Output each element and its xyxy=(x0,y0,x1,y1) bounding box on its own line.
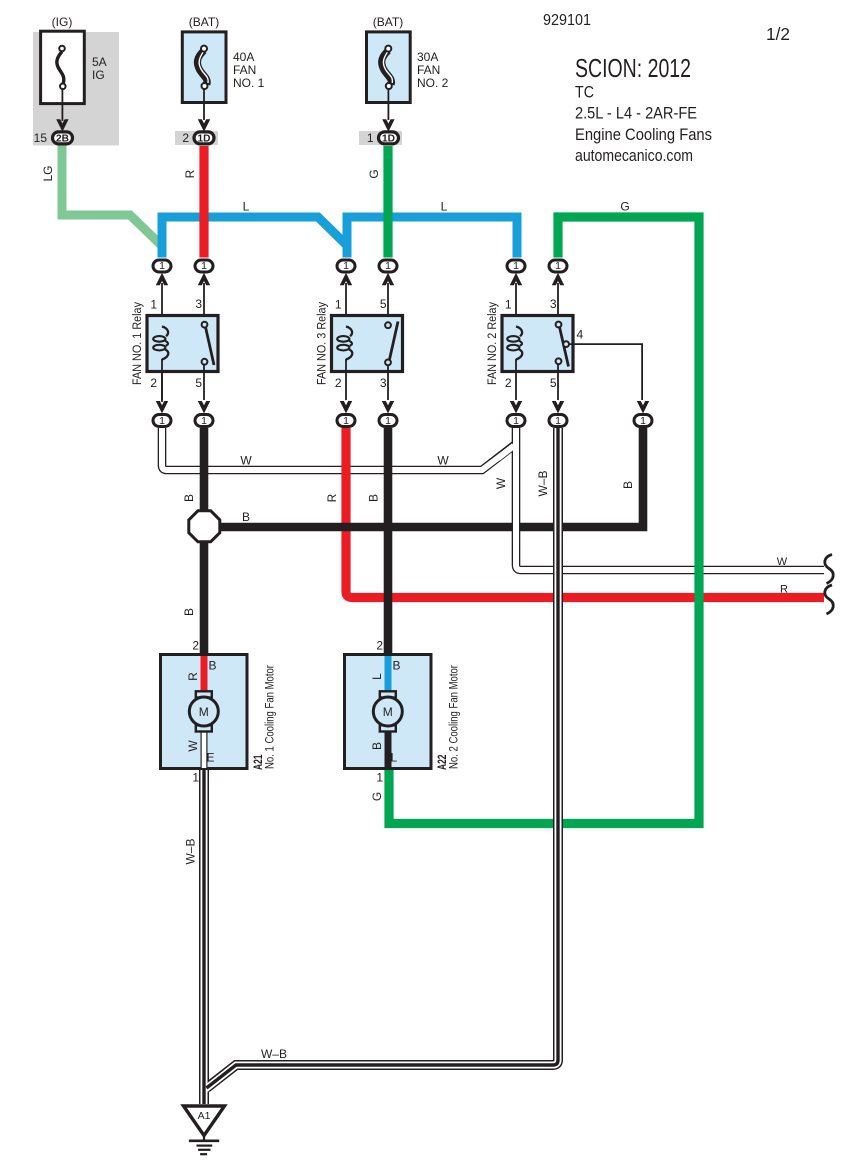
junction octagon node xyxy=(189,511,220,542)
oval 1 below relay1 pin2 xyxy=(153,372,171,427)
wire label G top right xyxy=(620,200,629,214)
svg-text:2.5L - L4 - 2AR-FE: 2.5L - L4 - 2AR-FE xyxy=(575,104,697,123)
oval 1 relay2 pin3 xyxy=(549,260,567,323)
svg-text:TC: TC xyxy=(575,83,594,102)
svg-text:B: B xyxy=(621,481,635,489)
connector oval 1D fuse2 xyxy=(367,131,399,145)
svg-text:5: 5 xyxy=(195,376,202,390)
svg-text:3: 3 xyxy=(380,376,387,390)
svg-text:B: B xyxy=(393,659,401,673)
svg-text:FAN: FAN xyxy=(233,63,256,77)
svg-text:B: B xyxy=(209,659,217,673)
wire W-B relay2 pin5 down, left along bottom, to ground (white-black) xyxy=(204,428,558,1104)
wire R relay3 pin2 down then right to edge (red) xyxy=(346,428,824,598)
wire G fuse2 to oval (green) xyxy=(383,146,392,258)
svg-text:929101: 929101 xyxy=(543,12,591,29)
wire W from relay1 pin2 down-right to relay2 pin2 branch (white wire, behind) xyxy=(162,428,515,470)
svg-text:R: R xyxy=(183,169,197,178)
svg-text:1: 1 xyxy=(343,260,349,272)
oval 1 below relay2 pin4 xyxy=(634,401,652,427)
svg-text:5: 5 xyxy=(380,297,387,311)
label B left of black vertical pin4 xyxy=(621,481,635,489)
svg-text:automecanico.com: automecanico.com xyxy=(575,146,693,165)
svg-text:W–B: W–B xyxy=(536,470,550,496)
svg-text:W: W xyxy=(777,556,788,568)
pin 4 wire to oval xyxy=(569,343,644,345)
oval 1 below relay1 pin5 xyxy=(195,401,213,427)
fuse F1 5A IG box xyxy=(41,31,85,121)
coil xyxy=(346,327,352,337)
svg-text:(BAT): (BAT) xyxy=(373,15,403,29)
svg-text:G: G xyxy=(620,200,629,214)
label W-B left of wb vertical relay2 xyxy=(536,470,550,496)
gray tag connector 1D fuse 30A xyxy=(359,131,402,145)
arrow into 1D xyxy=(198,119,210,132)
svg-text:1: 1 xyxy=(335,298,342,312)
svg-text:2: 2 xyxy=(505,376,512,390)
wire label G xyxy=(367,169,381,178)
svg-text:3: 3 xyxy=(550,297,557,311)
svg-text:1: 1 xyxy=(343,415,349,427)
wire G loop: relay2 pin3 up, right, down right side, bottom to motor2 pin1 (green) xyxy=(389,217,699,824)
svg-text:W: W xyxy=(186,740,200,752)
label B on bus xyxy=(242,510,250,524)
svg-text:W–B: W–B xyxy=(261,1047,287,1061)
connector oval 1D fuse1 xyxy=(182,131,214,145)
wire B relay1 pin5 to octagon junction to motor1 (black) xyxy=(200,428,209,655)
svg-text:R: R xyxy=(186,672,200,681)
svg-text:FAN: FAN xyxy=(417,63,440,77)
svg-text:1D: 1D xyxy=(382,134,395,145)
svg-text:2: 2 xyxy=(335,376,342,390)
svg-text:W: W xyxy=(437,454,449,468)
svg-text:R: R xyxy=(325,493,339,502)
svg-text:G: G xyxy=(367,169,381,178)
relay FAN NO. 1 Relay xyxy=(132,297,218,400)
switch with pin4 tap xyxy=(560,327,569,367)
label W right end xyxy=(777,556,788,568)
label 30A FAN NO. 2 xyxy=(417,50,449,90)
svg-text:B: B xyxy=(367,494,381,502)
svg-text:B: B xyxy=(370,742,384,750)
label W left of white vertical relay2 xyxy=(494,477,508,489)
label R left of red vertical xyxy=(325,493,339,502)
internal B wire xyxy=(385,730,392,768)
motor circle xyxy=(373,697,402,726)
coil xyxy=(162,327,168,337)
svg-text:L: L xyxy=(370,673,384,680)
label W on horizontal xyxy=(240,454,252,468)
svg-text:IG: IG xyxy=(92,68,105,82)
svg-text:A22: A22 xyxy=(437,755,449,771)
continuation squiggle W xyxy=(825,555,833,584)
motor A21 No.1 Cooling Fan Motor xyxy=(161,639,277,785)
svg-text:B: B xyxy=(182,608,196,616)
oval 1 relay3 pin5 xyxy=(379,260,397,323)
svg-text:1: 1 xyxy=(201,260,207,272)
oval 1 relay1 pin3 xyxy=(195,260,213,323)
wire label L second xyxy=(441,200,448,214)
svg-text:30A: 30A xyxy=(417,50,438,64)
arrow into 1D xyxy=(382,119,394,132)
svg-text:1: 1 xyxy=(192,771,199,785)
wire label R xyxy=(183,169,197,178)
svg-text:5: 5 xyxy=(550,376,557,390)
fuse F2 40A FAN NO.1 box xyxy=(182,32,226,120)
svg-text:NO. 1: NO. 1 xyxy=(233,76,265,90)
wire W relay2 pin2 down then right to edge (white) xyxy=(498,428,824,570)
svg-text:5A: 5A xyxy=(92,55,107,69)
internal W wire xyxy=(201,730,208,768)
wire LG from IG fuse xyxy=(62,144,162,246)
svg-text:B: B xyxy=(182,494,196,502)
svg-text:SCION: 2012: SCION: 2012 xyxy=(575,53,691,83)
svg-text:M: M xyxy=(199,705,209,719)
internal R wire xyxy=(201,656,208,692)
motor terminals xyxy=(380,691,396,697)
oval 1 below relay2 pin2 xyxy=(507,401,525,427)
svg-text:1: 1 xyxy=(367,131,374,145)
svg-text:1: 1 xyxy=(201,415,207,427)
svg-text:W: W xyxy=(240,454,252,468)
svg-text:W–B: W–B xyxy=(184,838,198,864)
svg-text:G: G xyxy=(370,792,384,801)
svg-text:1/2: 1/2 xyxy=(766,24,790,44)
svg-text:40A: 40A xyxy=(233,50,254,64)
label (BAT) xyxy=(189,15,219,29)
svg-text:1: 1 xyxy=(376,771,383,785)
wire B bus octagon to relay2 pin4 oval (black) xyxy=(210,428,643,527)
svg-text:2: 2 xyxy=(182,131,189,145)
internal L wire xyxy=(385,656,392,692)
svg-text:(BAT): (BAT) xyxy=(189,15,219,29)
wire label LG xyxy=(41,165,55,181)
svg-text:W: W xyxy=(494,477,508,489)
label B under octagon xyxy=(182,608,196,616)
relay FAN NO. 3 Relay xyxy=(317,297,403,400)
label W-B left vertical xyxy=(184,838,198,864)
switch xyxy=(206,327,215,365)
svg-text:No. 1 Cooling Fan Motor: No. 1 Cooling Fan Motor xyxy=(265,665,277,769)
oval 1 relay3 pin1 xyxy=(337,260,355,328)
svg-text:1: 1 xyxy=(385,260,391,272)
motor circle xyxy=(189,697,218,726)
label W on horizontal 2 xyxy=(437,454,449,468)
switch (arm from bottom contact up-right) xyxy=(390,322,399,360)
label B left of black vertical relay3 xyxy=(367,494,381,502)
svg-text:3: 3 xyxy=(195,297,202,311)
oval 1 below relay3 pin3 xyxy=(379,401,397,427)
svg-text:LG: LG xyxy=(41,165,55,181)
label (IG) xyxy=(52,15,73,29)
svg-text:NO. 2: NO. 2 xyxy=(417,76,449,90)
wire B relay3 pin3 to motor2 (black) xyxy=(384,428,393,655)
svg-text:M: M xyxy=(383,705,393,719)
svg-text:L: L xyxy=(441,200,448,214)
ground A1 xyxy=(184,1106,225,1154)
oval 1 relay1 pin1 xyxy=(153,260,171,328)
svg-text:1: 1 xyxy=(150,298,157,312)
wire label L first xyxy=(243,200,250,214)
svg-text:15: 15 xyxy=(34,131,48,145)
svg-text:1: 1 xyxy=(555,415,561,427)
label (BAT) xyxy=(373,15,403,29)
svg-text:FAN NO. 3 Relay: FAN NO. 3 Relay xyxy=(317,302,329,385)
title block xyxy=(543,12,790,165)
svg-text:1: 1 xyxy=(513,260,519,272)
label B left of black vertical xyxy=(182,494,196,502)
svg-text:1: 1 xyxy=(513,415,519,427)
svg-text:L: L xyxy=(243,200,250,214)
label W-B bottom horizontal xyxy=(261,1047,287,1061)
svg-text:4: 4 xyxy=(577,328,584,342)
continuation squiggle R xyxy=(825,585,833,614)
svg-text:E: E xyxy=(207,751,215,765)
gray backdrop IG fuse area xyxy=(33,32,119,146)
svg-text:A21: A21 xyxy=(253,754,265,770)
oval 1 below relay2 pin5 xyxy=(549,401,567,427)
svg-text:FAN NO. 1 Relay: FAN NO. 1 Relay xyxy=(132,302,144,385)
svg-text:2: 2 xyxy=(376,639,383,653)
svg-text:(IG): (IG) xyxy=(52,15,73,29)
svg-text:2: 2 xyxy=(150,376,157,390)
svg-text:1: 1 xyxy=(159,260,165,272)
svg-text:B: B xyxy=(242,510,250,524)
motor terminals xyxy=(196,691,212,697)
oval 1 below relay3 pin2 xyxy=(337,401,355,427)
oval 1 relay2 pin1 xyxy=(507,260,525,328)
svg-text:A1: A1 xyxy=(198,1110,211,1122)
relay FAN NO. 2 Relay xyxy=(487,297,643,400)
svg-text:No. 2 Cooling Fan Motor: No. 2 Cooling Fan Motor xyxy=(449,665,461,769)
motor A22 No.2 Cooling Fan Motor xyxy=(345,639,461,785)
svg-text:L: L xyxy=(391,751,398,765)
svg-text:1: 1 xyxy=(159,415,165,427)
label R right end xyxy=(780,584,788,596)
svg-text:1: 1 xyxy=(505,298,512,312)
wire R fuse1 to oval (red) xyxy=(199,146,208,258)
label 5A IG xyxy=(92,55,107,82)
svg-text:R: R xyxy=(780,584,788,596)
connector oval 2B xyxy=(34,131,73,145)
svg-text:2: 2 xyxy=(192,639,199,653)
wire L blue bus xyxy=(162,217,517,258)
svg-text:FAN NO. 2 Relay: FAN NO. 2 Relay xyxy=(487,302,499,385)
fuse F3 30A FAN NO.2 box xyxy=(367,32,411,120)
svg-text:Engine Cooling Fans: Engine Cooling Fans xyxy=(575,125,712,144)
svg-text:1: 1 xyxy=(385,415,391,427)
svg-text:1D: 1D xyxy=(198,134,211,145)
label G below motor2 xyxy=(370,792,384,801)
svg-text:2B: 2B xyxy=(56,134,69,145)
arrow into 2B xyxy=(56,119,68,132)
svg-text:1: 1 xyxy=(640,415,646,427)
coil xyxy=(516,327,522,337)
svg-text:1: 1 xyxy=(555,260,561,272)
label 40A FAN NO. 1 xyxy=(233,50,265,90)
gray tag connector 1D fuse 40A xyxy=(175,131,218,145)
